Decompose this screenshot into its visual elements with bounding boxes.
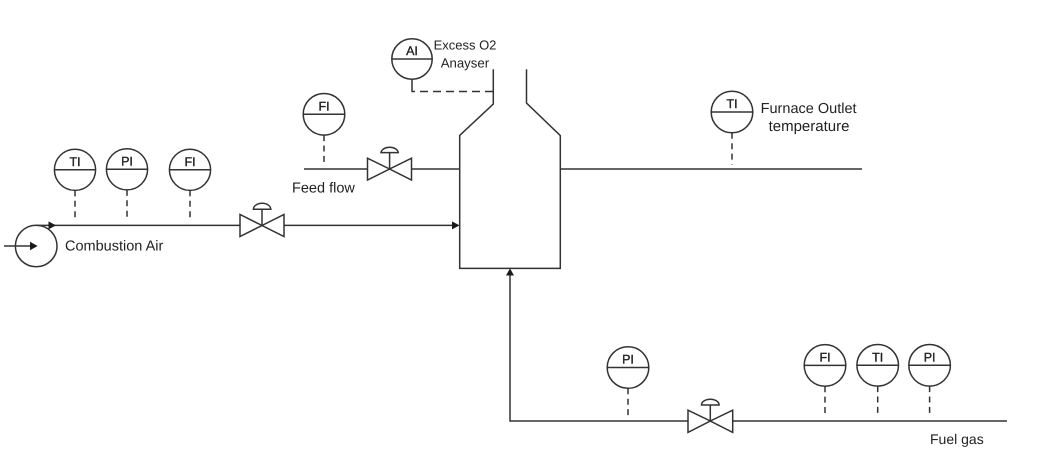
instrument AI excess O2 analyser <box>392 39 494 92</box>
instrument FI (fuel gas) <box>804 345 846 416</box>
svg-text:TI: TI <box>726 97 737 111</box>
instrument FI (feed flow) <box>303 94 345 166</box>
signal stub AI <box>411 79 413 86</box>
signal dashed TI fuel <box>877 386 879 416</box>
svg-text:Furnace Outlet: Furnace Outlet <box>761 101 857 117</box>
svg-text:Excess O2: Excess O2 <box>434 37 497 52</box>
control valve V2 (feed flow) <box>368 147 412 180</box>
arrow into furnace (combustion air) <box>452 221 460 229</box>
svg-text:Feed flow: Feed flow <box>292 181 355 197</box>
svg-text:PI: PI <box>924 351 936 365</box>
svg-text:FI: FI <box>318 100 329 114</box>
wire feed flow line to furnace <box>412 168 460 170</box>
svg-text:TI: TI <box>872 351 883 365</box>
signal dashed FI <box>189 190 191 221</box>
svg-text:temperature: temperature <box>769 118 850 135</box>
instrument PI (fuel gas left) <box>607 347 649 417</box>
instrument TI (combustion air) <box>54 149 95 221</box>
svg-text:Combustion Air: Combustion Air <box>65 239 163 255</box>
wire feed flow line <box>304 168 368 170</box>
svg-text:Fuel gas: Fuel gas <box>930 431 984 447</box>
instrument FI (combustion air) <box>169 149 210 221</box>
signal dashed PI <box>126 190 128 221</box>
instrument PI (fuel gas right) <box>909 345 951 417</box>
inlet arrow into blower <box>4 242 38 250</box>
svg-text:FI: FI <box>184 155 195 169</box>
signal dashed TI outlet <box>731 133 733 165</box>
wire fuel gas line (left of valve) and riser to furnace <box>510 272 688 421</box>
wire furnace outlet line <box>560 168 862 170</box>
instrument TI (fuel gas) <box>857 345 899 417</box>
furnace F1 body <box>460 69 561 268</box>
wire combustion air line <box>36 224 240 226</box>
svg-text:PI: PI <box>121 155 133 169</box>
svg-text:AI: AI <box>406 44 418 58</box>
arrow into furnace (fuel gas) <box>506 268 514 275</box>
signal dashed TI <box>74 190 76 221</box>
svg-text:PI: PI <box>622 353 634 367</box>
instrument PI (combustion air) <box>106 149 147 221</box>
signal dashed PI fuel right <box>929 386 931 416</box>
wire fuel gas line (right of valve) <box>733 420 1007 422</box>
control valve V1 (combustion air) <box>240 203 284 236</box>
signal dashed FI feed <box>323 135 325 165</box>
signal dashed PI fuel <box>627 388 629 417</box>
svg-text:TI: TI <box>69 155 80 169</box>
blower combustion air fan <box>15 225 57 267</box>
control valve V3 (fuel gas) <box>688 399 733 432</box>
arrow on combustion air line <box>49 221 57 229</box>
signal dashed FI fuel <box>824 386 826 416</box>
instrument TI (furnace outlet) <box>711 91 753 164</box>
signal dashed AI to stack <box>412 87 494 92</box>
wire combustion air line to furnace <box>284 224 453 226</box>
svg-text:FI: FI <box>819 351 830 365</box>
svg-text:Anayser: Anayser <box>441 56 490 71</box>
